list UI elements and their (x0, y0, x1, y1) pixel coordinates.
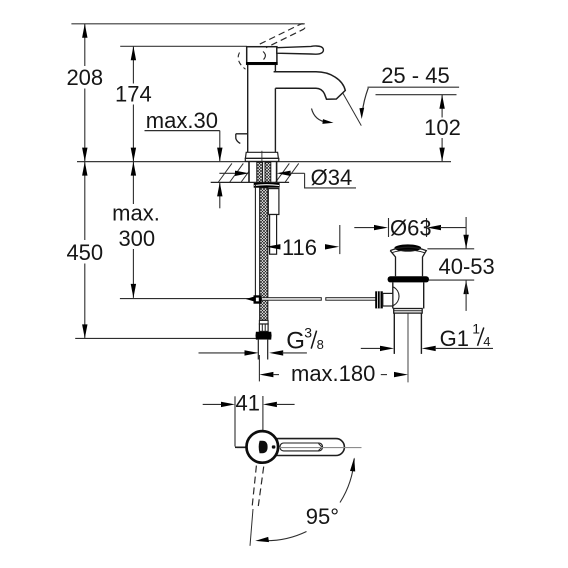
lever handle raised (dashed) (260, 24, 305, 48)
leader arrow from 25-45 to spout outlet (362, 88, 368, 113)
svg-text:G1: G1 (440, 326, 469, 351)
lever handle (horizontal) (277, 46, 324, 54)
svg-text:max.: max. (112, 201, 160, 226)
mounting hole edges (248, 162, 250, 182)
mounting nut (254, 183, 280, 188)
cartridge head (247, 47, 277, 65)
deck bottom line (211, 181, 289, 183)
deck hatching (218, 163, 298, 182)
cartridge bold bottom edge (246, 62, 278, 65)
dashed swing arc left of cartridge (238, 53, 245, 70)
tailpipe (393, 313, 395, 354)
second supply connection (stepped tube) (268, 189, 279, 215)
extension line below dashed lever (250, 509, 253, 546)
valve body (393, 282, 424, 308)
gray centerline (237, 447, 362, 449)
Ø34 leader step and underline (305, 173, 356, 188)
svg-text:40-53: 40-53 (439, 254, 495, 279)
max.180 dimension (259, 372, 273, 377)
dashed lever rotated 95 (252, 466, 256, 507)
40-53 dimension (465, 217, 467, 249)
threaded shank cross-section (257, 162, 263, 182)
connection tube below nut (258, 340, 267, 360)
G3/8 connection nut (256, 332, 272, 340)
countertop deck line (77, 161, 451, 163)
svg-text:8: 8 (317, 337, 324, 352)
Ø34 arrows (219, 172, 237, 174)
max.30 leader vertical + arrows (deck thickness) (219, 131, 221, 162)
svg-text:1: 1 (472, 321, 480, 337)
dimension 208 vertical line (84, 24, 86, 66)
svg-text:max.180: max.180 (291, 361, 375, 386)
svg-text:41: 41 (235, 390, 259, 415)
bottom collar (double line) (394, 309, 423, 314)
interior arc (394, 287, 400, 306)
G3/8 dimension arrows (199, 352, 246, 354)
svg-text:Ø63: Ø63 (390, 216, 432, 241)
svg-text:116: 116 (282, 235, 317, 260)
tailpipe centerline (407, 313, 409, 382)
faucet base (245, 152, 278, 158)
svg-text:4: 4 (483, 334, 490, 349)
svg-text:G: G (286, 328, 305, 355)
svg-text:max.30: max.30 (146, 108, 218, 133)
lift rod knob behind body (236, 134, 248, 144)
rubber gasket (388, 276, 429, 282)
max.300 bottom reference line (pop-up rod level) (120, 298, 249, 300)
supply centerline extension (258, 355, 260, 381)
svg-text:Ø34: Ø34 (311, 165, 353, 190)
pop-up rod tee block (246, 297, 254, 302)
braided supply hose (260, 188, 268, 321)
dimension 116 (266, 244, 280, 249)
G1 1/4 dimension arrows (361, 347, 381, 349)
FAUCET BODY GROUP (236, 24, 345, 188)
water stream diagonal line (343, 93, 362, 126)
450 bottom reference line (75, 337, 256, 339)
dimension 174 vertical line (132, 46, 134, 83)
top reference line (raised handle height) (71, 23, 304, 25)
drain flange (390, 247, 426, 276)
dimension 41 (234, 396, 236, 446)
curved arrow left of stream (312, 109, 328, 123)
DRAIN GROUP (259, 216, 494, 387)
svg-text:174: 174 (115, 82, 152, 107)
svg-text:95°: 95° (306, 504, 339, 529)
Ø63 dimension (354, 227, 374, 229)
pop-up lift rod (vertical thin) (254, 184, 256, 296)
faucet body column (248, 64, 276, 152)
knurled adjuster knob (375, 291, 383, 308)
faucet centerline (261, 151, 263, 188)
dimension max.300 vertical line (132, 162, 134, 204)
svg-text:450: 450 (66, 240, 103, 265)
svg-text:300: 300 (118, 226, 155, 251)
svg-text:208: 208 (66, 65, 103, 90)
102 top reference line (376, 94, 457, 96)
BELOW DECK GROUP (199, 162, 377, 381)
TOP VIEW GROUP (203, 390, 362, 546)
hose end white band (259, 320, 268, 324)
95 degree arc (340, 459, 354, 503)
dimension 450 vertical line (84, 162, 86, 240)
svg-text:3: 3 (304, 325, 312, 341)
svg-text:25 - 45: 25 - 45 (381, 63, 450, 88)
dimension 102 vertical line (441, 95, 443, 118)
handle pivot blob (259, 441, 268, 453)
drain plug (dark ellipse) (394, 244, 421, 251)
small arc inside cartridge (263, 52, 265, 60)
horizontal pop-up rod (262, 298, 322, 301)
body circle top view (246, 431, 278, 463)
arc arrowheads (350, 458, 355, 472)
lever top view (270, 439, 344, 456)
174 reference line (handle top) (120, 45, 247, 47)
svg-text:102: 102 (424, 115, 461, 140)
spout (274, 72, 346, 99)
rod entry block (383, 293, 393, 306)
crimp ferrule (259, 324, 268, 331)
